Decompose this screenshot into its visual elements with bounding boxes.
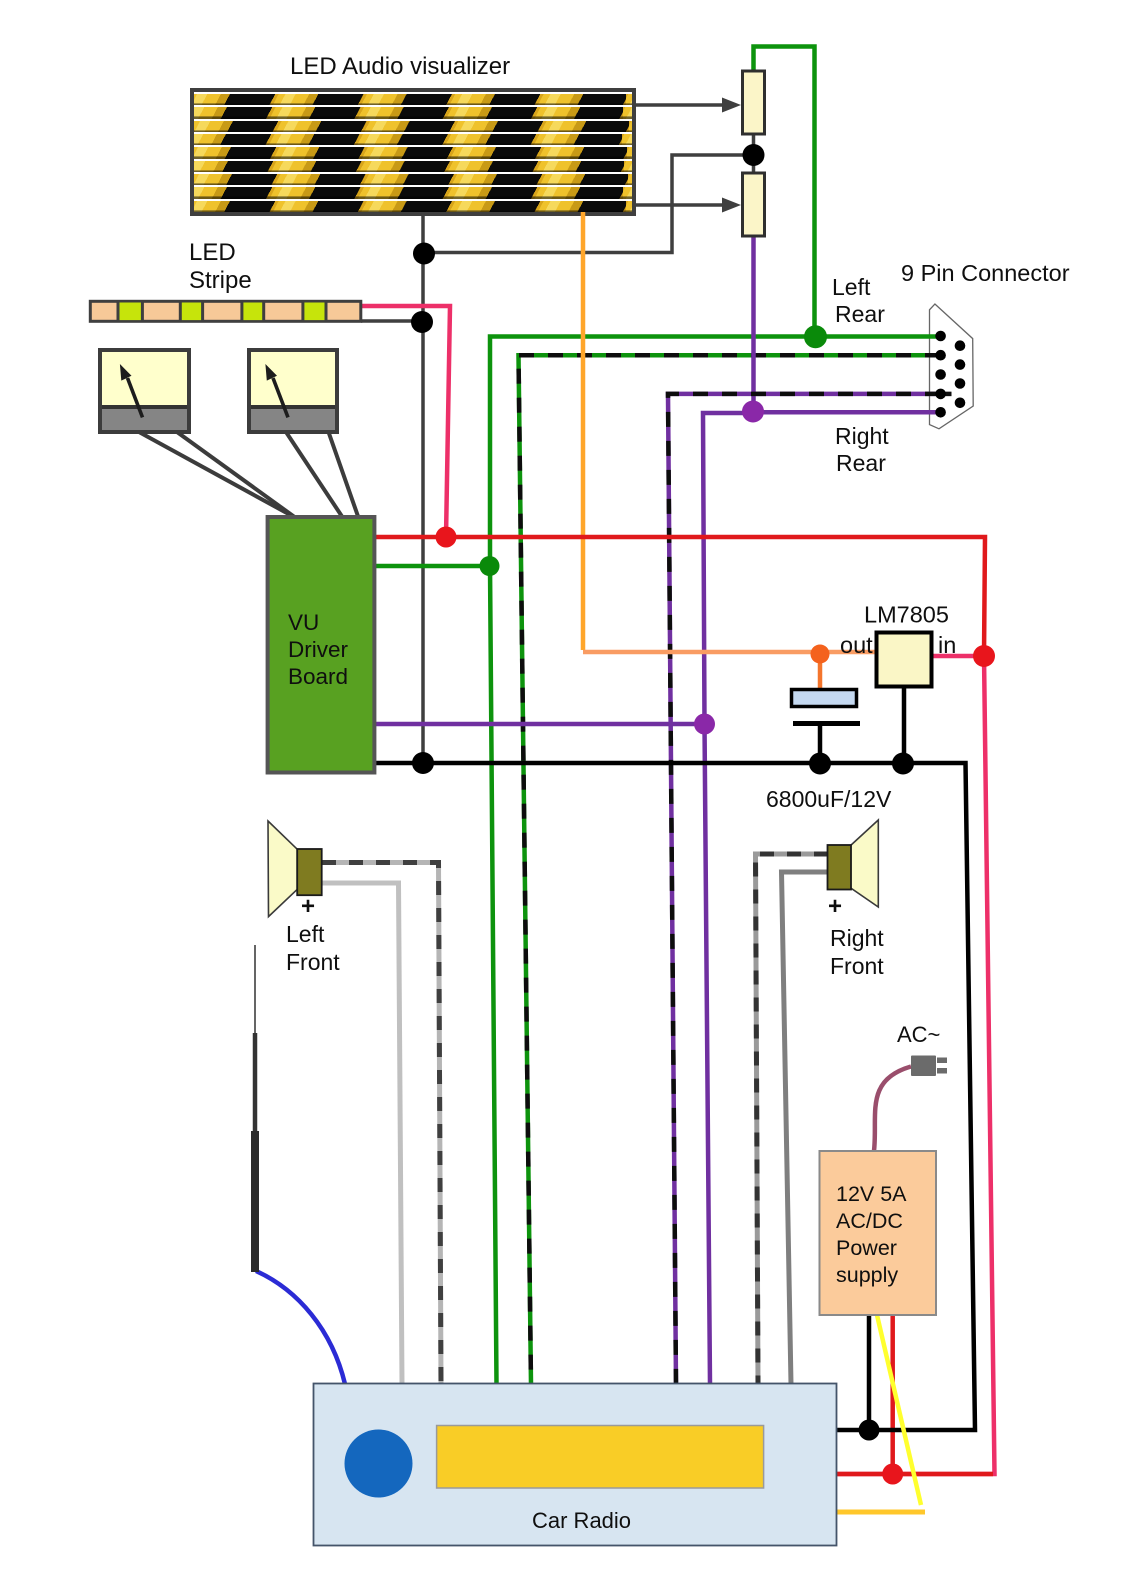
black wire LM7805 gnd lead [902, 686, 907, 763]
black wire power supply to radio bus [867, 1315, 872, 1430]
pink wire from LED stripe down to red node [361, 306, 450, 537]
salmon stub to capacitor [818, 654, 823, 690]
VU meter M2 [249, 350, 337, 432]
arrowhead 1 [722, 98, 741, 113]
AC plug P1 [911, 1056, 947, 1077]
9 pin connector J2 shell [930, 304, 974, 429]
purple dashed wire to 9-pin, down to radio [668, 394, 940, 1384]
purple wire: down to VU junction and radio [703, 413, 754, 1384]
svg-text:Front: Front [286, 949, 340, 975]
black wire ground bus [374, 763, 975, 1430]
fuse F2 [743, 173, 765, 236]
svg-text:6800uF/12V: 6800uF/12V [766, 786, 892, 812]
svg-text:Car Radio: Car Radio [532, 1508, 631, 1533]
VU Driver Board U2 [268, 517, 375, 773]
pin 3 [935, 369, 946, 380]
node: LM7805 in [973, 645, 995, 667]
node: ground bus / black vertical [412, 752, 434, 774]
meter M2 to board lines [286, 432, 347, 524]
radio knob [345, 1430, 413, 1498]
svg-text:Stripe: Stripe [189, 267, 252, 294]
node: red at VU line [436, 527, 457, 548]
left speaker gray dashed wire [322, 863, 441, 1385]
svg-text:+: + [301, 893, 315, 920]
LED stripe [90, 301, 361, 321]
svg-text:VU: VU [288, 610, 319, 635]
blue antenna wire [256, 1271, 345, 1384]
radio display [437, 1426, 764, 1489]
svg-text:Right: Right [830, 925, 884, 951]
svg-text:+: + [828, 893, 842, 920]
svg-text:12V 5A: 12V 5A [836, 1182, 907, 1206]
pin 1 [935, 331, 946, 342]
9 pin connector J2 pins [935, 331, 965, 418]
svg-text:Left: Left [286, 921, 325, 947]
node: green at VU [480, 556, 500, 576]
right speaker SP2 [828, 820, 879, 907]
pin 9 [955, 398, 966, 409]
node: Left Rear green [804, 325, 827, 348]
fuse F1 [743, 71, 765, 134]
green dashed wire (green+black) to 9-pin and down to radio [519, 355, 941, 1384]
node: power supply gnd at radio [859, 1420, 880, 1441]
green stub from VU board [374, 564, 489, 569]
amber wire from radio [834, 1510, 925, 1515]
svg-text:LM7805: LM7805 [864, 602, 949, 628]
salmon wire to LM7805 out [583, 650, 877, 655]
purple stub from VU board [374, 722, 704, 727]
green wire: Left Rear horizontal to 9-pin [490, 337, 940, 1385]
antenna mast [254, 945, 256, 1033]
svg-text:Rear: Rear [836, 450, 886, 476]
node: red at radio [882, 1464, 903, 1485]
pin 8 [955, 378, 966, 389]
car radio [314, 1384, 837, 1546]
pin 5 [935, 407, 946, 418]
red wire radio to crimson corner [834, 1472, 993, 1477]
node: capacitor gnd [809, 753, 831, 775]
svg-text:Power: Power [836, 1236, 897, 1260]
left speaker gray solid wire [322, 883, 402, 1384]
svg-text:AC/DC: AC/DC [836, 1209, 903, 1233]
needle M2 [273, 378, 288, 417]
svg-text:supply: supply [836, 1263, 898, 1287]
black wire capacitor lead [818, 722, 823, 763]
svg-text:Right: Right [835, 423, 889, 449]
svg-text:LED Audio visualizer: LED Audio visualizer [290, 53, 510, 80]
purple wire: Right Rear to 9-pin [754, 410, 941, 415]
node: matrix bottom junction [413, 243, 435, 265]
arrowhead 2 [722, 198, 741, 213]
svg-text:in: in [938, 632, 956, 658]
yellow wire power supply diagonal [877, 1315, 921, 1505]
svg-text:AC~: AC~ [897, 1022, 940, 1047]
svg-text:out: out [840, 632, 873, 658]
red wire VU board to LM7805 in node [374, 537, 985, 656]
pink wire LM7805 in [931, 654, 984, 659]
LED matrix display (LED Audio visualizer) [190, 88, 636, 216]
maroon AC wire [874, 1067, 911, 1152]
svg-text:Rear: Rear [835, 301, 885, 327]
pin 4 [935, 389, 946, 400]
svg-text:Board: Board [288, 664, 348, 689]
green wire: fuse F1 top loop to Left Rear net [754, 47, 815, 337]
wire: matrix to connector block J1 (arrow line top) [361, 105, 754, 763]
left speaker SP1 [268, 821, 322, 917]
svg-text:9 Pin Connector: 9 Pin Connector [901, 260, 1070, 286]
node: LM7805 out orange [811, 645, 830, 664]
svg-text:Front: Front [830, 953, 884, 979]
crimson wire down right side to radio [834, 656, 995, 1474]
purple wire: fuse F2 bottom to Right Rear [751, 234, 756, 413]
capacitor C1 bottom plate [793, 721, 860, 726]
power supply PS1 [820, 1151, 937, 1315]
svg-text:Left: Left [832, 274, 871, 300]
capacitor C1 top plate [792, 690, 857, 707]
pin 7 [955, 359, 966, 370]
svg-text:Driver: Driver [288, 637, 349, 662]
node: LED stripe junction [411, 311, 433, 333]
LM7805 U1 [877, 633, 932, 687]
node: junction between fuses [743, 144, 765, 166]
needle M1 [128, 378, 143, 417]
right speaker gray dashed wire [756, 854, 829, 1384]
svg-text:LED: LED [189, 239, 236, 266]
red wire power supply down [890, 1315, 895, 1474]
node: LM7805 gnd [892, 753, 914, 775]
orange wire from matrix bottom [581, 212, 586, 650]
node: purple at VU [694, 714, 715, 735]
meter M1 to board lines [139, 432, 305, 523]
pin 2 [935, 350, 946, 361]
node: Right Rear purple [742, 401, 764, 423]
right speaker gray solid wire [782, 872, 829, 1384]
pin 6 [955, 340, 966, 351]
VU meter M1 [100, 350, 189, 432]
